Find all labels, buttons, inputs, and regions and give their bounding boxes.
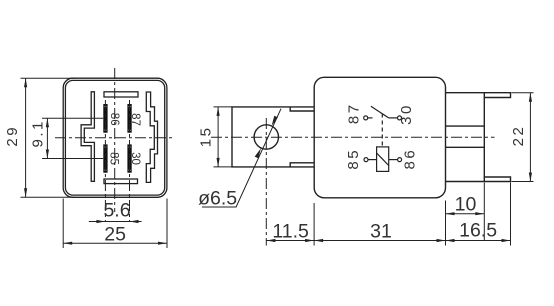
svg-text:86: 86 (108, 113, 120, 126)
svg-text:87: 87 (129, 113, 141, 126)
svg-text:86: 86 (401, 148, 418, 170)
svg-text:30: 30 (129, 152, 141, 165)
svg-text:31: 31 (370, 221, 392, 243)
svg-text:30: 30 (398, 103, 415, 125)
svg-text:29: 29 (4, 125, 21, 147)
svg-text:25: 25 (104, 223, 126, 245)
svg-text:87: 87 (345, 102, 362, 124)
svg-text:16.5: 16.5 (459, 220, 497, 242)
svg-text:15: 15 (198, 126, 215, 148)
svg-text:5.6: 5.6 (103, 200, 130, 222)
svg-text:9.1: 9.1 (30, 119, 47, 147)
svg-text:85: 85 (108, 152, 120, 165)
svg-text:85: 85 (345, 148, 362, 170)
svg-text:11.5: 11.5 (272, 221, 309, 243)
svg-text:10: 10 (455, 194, 477, 216)
svg-text:ø6.5: ø6.5 (198, 188, 237, 210)
svg-text:22: 22 (510, 125, 527, 147)
